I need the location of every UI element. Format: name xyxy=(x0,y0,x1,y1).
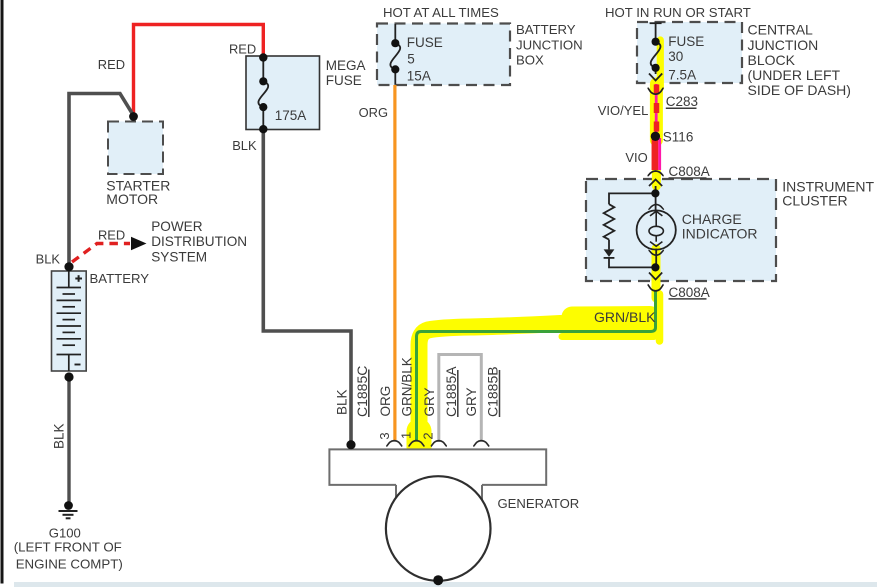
svg-text:RED: RED xyxy=(98,57,125,72)
svg-text:C808A: C808A xyxy=(669,164,710,179)
svg-text:C283: C283 xyxy=(666,94,698,109)
svg-text:BLK: BLK xyxy=(232,138,257,153)
svg-text:VIO/YEL: VIO/YEL xyxy=(598,103,649,118)
svg-text:GENERATOR: GENERATOR xyxy=(498,496,580,511)
svg-text:G100: G100 xyxy=(49,525,81,540)
svg-text:FUSE: FUSE xyxy=(407,35,443,50)
svg-text:ORG: ORG xyxy=(359,105,388,120)
svg-text:30: 30 xyxy=(668,49,683,64)
svg-text:GRN/BLK: GRN/BLK xyxy=(400,357,415,416)
svg-text:VIO: VIO xyxy=(625,150,647,165)
svg-text:BLK: BLK xyxy=(36,252,61,267)
svg-text:RED: RED xyxy=(229,41,256,56)
svg-text:FUSE: FUSE xyxy=(668,34,704,49)
svg-text:C808A: C808A xyxy=(669,285,710,300)
svg-text:HOT AT ALL TIMES: HOT AT ALL TIMES xyxy=(383,5,499,20)
svg-text:BLK: BLK xyxy=(335,389,350,415)
svg-text:S116: S116 xyxy=(663,129,694,144)
svg-text:JUNCTION: JUNCTION xyxy=(516,37,583,52)
svg-text:CENTRAL: CENTRAL xyxy=(748,22,814,38)
svg-text:SIDE OF DASH): SIDE OF DASH) xyxy=(748,82,851,98)
svg-text:HOT IN RUN OR START: HOT IN RUN OR START xyxy=(605,5,751,20)
svg-text:GRY: GRY xyxy=(422,387,437,416)
svg-text:INDICATOR: INDICATOR xyxy=(682,225,758,241)
svg-text:GRN/BLK: GRN/BLK xyxy=(594,309,656,325)
svg-text:MEGA: MEGA xyxy=(326,58,366,73)
svg-text:RED: RED xyxy=(98,227,125,242)
svg-text:BLK: BLK xyxy=(51,423,66,449)
svg-text:BOX: BOX xyxy=(516,53,544,68)
svg-text:JUNCTION: JUNCTION xyxy=(748,37,819,53)
svg-text:C1885B: C1885B xyxy=(485,366,501,417)
svg-text:MOTOR: MOTOR xyxy=(106,191,158,207)
svg-text:15A: 15A xyxy=(407,69,431,84)
svg-text:(LEFT FRONT OF: (LEFT FRONT OF xyxy=(14,539,122,554)
svg-text:C1885C: C1885C xyxy=(354,366,370,417)
svg-text:DISTRIBUTION: DISTRIBUTION xyxy=(151,234,247,249)
svg-text:ORG: ORG xyxy=(378,386,393,417)
svg-text:BLOCK: BLOCK xyxy=(748,52,796,68)
svg-text:7.5A: 7.5A xyxy=(668,68,696,83)
svg-text:GRY: GRY xyxy=(464,387,479,416)
svg-text:3: 3 xyxy=(377,432,392,439)
svg-text:2: 2 xyxy=(420,432,435,439)
svg-text:FUSE: FUSE xyxy=(326,73,362,88)
svg-text:BATTERY: BATTERY xyxy=(516,22,576,37)
svg-text:SYSTEM: SYSTEM xyxy=(151,249,207,264)
svg-text:175A: 175A xyxy=(275,108,307,123)
svg-text:5: 5 xyxy=(407,52,415,67)
svg-text:CLUSTER: CLUSTER xyxy=(782,193,847,209)
svg-text:1: 1 xyxy=(399,432,414,439)
svg-text:BATTERY: BATTERY xyxy=(90,271,150,286)
svg-text:ENGINE COMPT): ENGINE COMPT) xyxy=(16,556,123,571)
svg-text:(UNDER LEFT: (UNDER LEFT xyxy=(748,67,841,83)
svg-text:C1885A: C1885A xyxy=(443,366,459,417)
svg-text:POWER: POWER xyxy=(151,219,203,234)
